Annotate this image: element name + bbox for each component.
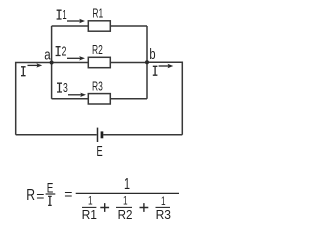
wire left bus vertical xyxy=(51,26,53,99)
node b junction dot xyxy=(145,60,149,64)
current label I2 with arrow xyxy=(56,45,85,61)
wire right outer loop from bottom-right corner up to node b xyxy=(147,62,182,135)
wire bottom left of battery xyxy=(16,134,97,136)
svg-text:R: R xyxy=(26,187,35,204)
wire R2 branch right segment xyxy=(110,62,147,64)
wire R2 branch left segment xyxy=(52,62,89,64)
wire R3 branch right segment xyxy=(110,98,147,100)
svg-text:1: 1 xyxy=(88,193,93,207)
resistor R2 xyxy=(88,42,110,67)
node a junction dot xyxy=(50,61,54,65)
wire R1 branch right segment xyxy=(110,25,147,27)
formula second plus sign xyxy=(140,203,149,212)
resistor R3 xyxy=(88,79,110,104)
formula big fraction main bar xyxy=(76,192,179,194)
formula denominator 1/R3: bar xyxy=(156,206,171,208)
svg-text:R1: R1 xyxy=(92,6,103,21)
formula denominator 1/R2: bar xyxy=(116,206,132,208)
current label I (right) with arrow xyxy=(153,64,174,75)
svg-text:=: = xyxy=(36,188,44,204)
svg-text:=: = xyxy=(64,186,72,202)
svg-text:1: 1 xyxy=(62,8,66,22)
svg-text:b: b xyxy=(149,46,155,63)
svg-text:1: 1 xyxy=(161,194,166,208)
wire bottom right of battery xyxy=(103,134,182,136)
svg-text:1: 1 xyxy=(123,194,128,208)
wire R3 branch left segment xyxy=(52,98,89,100)
battery E long plate xyxy=(97,128,99,142)
formula E over I fraction bar xyxy=(46,193,56,195)
svg-text:R1: R1 xyxy=(82,207,97,222)
svg-text:R3: R3 xyxy=(92,79,103,94)
resistor R1 xyxy=(88,6,110,31)
svg-text:R2: R2 xyxy=(118,207,133,222)
svg-text:2: 2 xyxy=(62,45,67,59)
current label I3 with arrow xyxy=(57,81,86,97)
svg-text:a: a xyxy=(44,46,51,63)
wire right bus vertical xyxy=(146,26,148,99)
battery E short thick plate xyxy=(101,131,104,138)
formula E over I fraction: I denominator xyxy=(48,196,52,205)
svg-text:3: 3 xyxy=(63,81,68,95)
current label I (left) with arrow xyxy=(21,63,42,75)
svg-text:E: E xyxy=(97,144,103,160)
current label I1 with arrow xyxy=(57,8,85,23)
wire R1 branch left segment xyxy=(52,25,89,27)
svg-text:R3: R3 xyxy=(156,207,171,222)
formula denominator 1/R1: bar xyxy=(82,206,96,208)
wire left outer loop from node a to bottom-left corner xyxy=(16,63,52,135)
svg-text:1: 1 xyxy=(124,176,130,193)
formula first plus sign xyxy=(100,203,109,212)
svg-text:E: E xyxy=(47,180,54,195)
svg-text:R2: R2 xyxy=(92,42,103,57)
